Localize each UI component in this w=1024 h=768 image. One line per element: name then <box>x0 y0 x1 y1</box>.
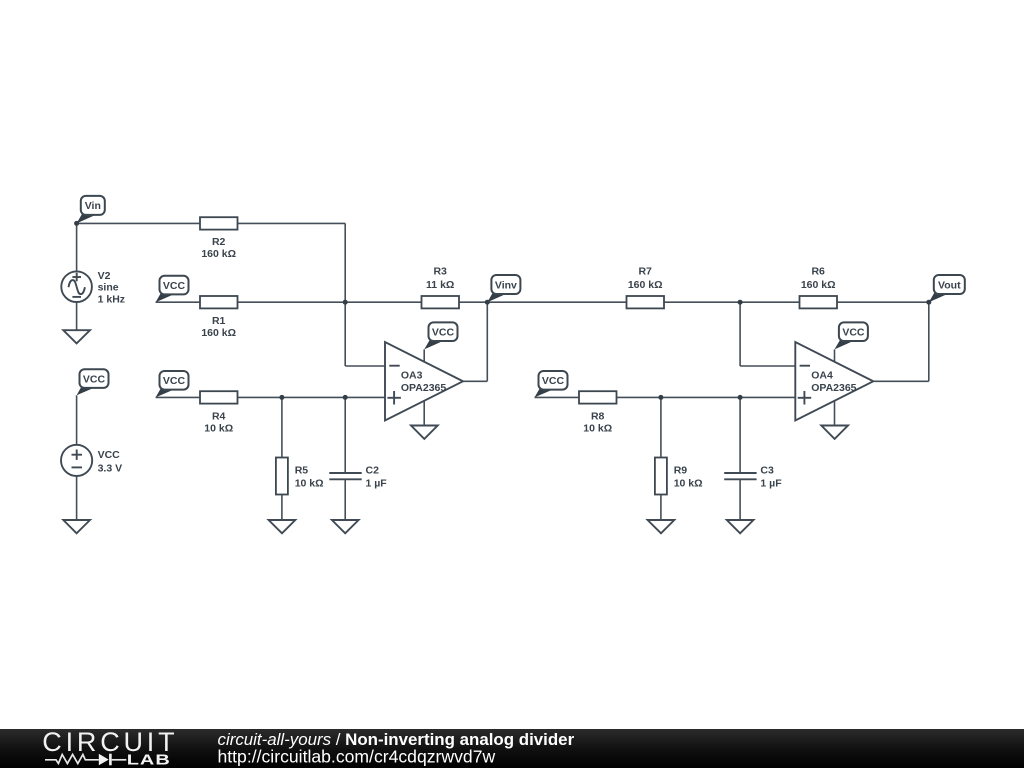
svg-text:10 kΩ: 10 kΩ <box>295 477 324 489</box>
wire R4 right to OA3 non-inverting input <box>238 396 386 398</box>
junction R7-R6 node <box>738 300 743 305</box>
ground under V2 <box>63 330 90 343</box>
svg-text:V2: V2 <box>98 270 111 282</box>
resistor R5 <box>276 458 288 495</box>
resistor R8 <box>579 391 617 403</box>
svg-text:Vinv: Vinv <box>495 279 517 291</box>
wire VCC flag to R8 left <box>535 396 580 398</box>
capacitor C2 <box>329 473 361 479</box>
voltage source VCC 3.3V <box>61 445 92 476</box>
label R7 value <box>628 266 663 291</box>
svg-text:R2: R2 <box>212 236 226 248</box>
power flag VCC at source <box>77 369 109 395</box>
junction Vinv <box>485 300 490 305</box>
svg-text:Vout: Vout <box>938 279 961 291</box>
label R6 value <box>801 266 836 291</box>
junction C3 tap <box>738 395 743 400</box>
wire C3 bottom to ground <box>739 480 741 520</box>
logo resistor zigzag <box>45 755 99 764</box>
svg-text:http://circuitlab.com/cr4cdqzr: http://circuitlab.com/cr4cdqzrwvd7w <box>218 746 496 766</box>
ground under C3 <box>727 520 754 533</box>
wire R3 right to Vinv node <box>459 301 487 303</box>
svg-text:R4: R4 <box>212 410 226 422</box>
svg-text:160 kΩ: 160 kΩ <box>201 327 236 339</box>
wire OA3 VCC pin <box>423 349 425 362</box>
voltage source V2 <box>61 271 92 302</box>
power flag VCC at OA3 <box>424 322 457 349</box>
label R5 value <box>295 465 324 490</box>
resistor R4 <box>200 391 238 403</box>
resistor R1 <box>200 296 238 308</box>
label R8 value <box>583 410 612 434</box>
power flag VCC at R4 <box>156 371 189 397</box>
wire C2 bottom to ground <box>344 480 346 520</box>
power flag VCC at R8 <box>535 371 568 397</box>
svg-text:sine: sine <box>98 282 119 294</box>
svg-text:R9: R9 <box>674 465 688 477</box>
wire VCC source bottom to ground <box>76 476 78 520</box>
wire R5 bottom to ground <box>281 495 283 521</box>
op-amp OA4 <box>795 342 873 421</box>
ground under VCC source <box>63 520 90 533</box>
resistor R3 <box>422 296 460 308</box>
label C3 value <box>760 465 782 490</box>
wire VCC source top <box>76 395 78 445</box>
svg-text:1 µF: 1 µF <box>760 477 782 489</box>
op-amp OA3 <box>385 342 463 421</box>
wire Vin node to R2 left <box>77 222 200 224</box>
svg-text:OPA2365: OPA2365 <box>811 382 856 394</box>
wire R8 right to OA4 non-inverting input <box>617 396 796 398</box>
svg-text:VCC: VCC <box>542 375 565 387</box>
resistor R9 <box>655 458 667 495</box>
junction R9 tap <box>658 395 663 400</box>
svg-text:160 kΩ: 160 kΩ <box>628 279 663 291</box>
wire Vinv node to R7 left <box>487 301 626 303</box>
wire stub to OA3 inverting input <box>345 365 385 367</box>
wire OA3 output to feedback column <box>463 380 487 382</box>
junction R5 tap <box>279 395 284 400</box>
capacitor C3 <box>724 473 756 479</box>
label R2 value <box>201 236 236 260</box>
junction C2 tap <box>343 395 348 400</box>
svg-text:R5: R5 <box>295 465 309 477</box>
label R9 value <box>674 465 703 490</box>
label VCC value <box>98 449 123 474</box>
wire OA4 output to Vout column <box>874 380 929 382</box>
wire R2 right to feedback corner <box>238 222 346 224</box>
junction Vout <box>926 300 931 305</box>
wire C2 top <box>344 397 346 472</box>
svg-text:160 kΩ: 160 kΩ <box>801 279 836 291</box>
svg-text:1 kHz: 1 kHz <box>98 293 125 305</box>
svg-text:R3: R3 <box>433 266 447 278</box>
logo diode symbol <box>99 754 127 766</box>
ground under R5 <box>269 520 296 533</box>
wire OA4 output vertical up to Vout <box>928 302 930 381</box>
svg-text:10 kΩ: 10 kΩ <box>204 423 233 435</box>
svg-text:C3: C3 <box>760 465 774 477</box>
wire C3 top <box>739 397 741 472</box>
resistor R2 <box>200 217 238 229</box>
svg-text:10 kΩ: 10 kΩ <box>583 423 612 435</box>
svg-text:VCC: VCC <box>98 449 121 461</box>
svg-text:VCC: VCC <box>163 280 186 292</box>
resistor R6 <box>800 296 838 308</box>
junction Vin <box>74 221 79 226</box>
wire R9 bottom to ground <box>660 495 662 521</box>
svg-text:1 µF: 1 µF <box>366 477 388 489</box>
svg-text:OA4: OA4 <box>811 369 833 381</box>
wire OA4 VCC pin <box>834 349 836 362</box>
label R3 value <box>426 266 454 291</box>
svg-text:R8: R8 <box>591 410 605 422</box>
node Vout flag <box>929 275 965 302</box>
wire R6 right to Vout node <box>837 301 929 303</box>
node Vinv flag <box>487 275 520 302</box>
label C2 value <box>366 465 388 490</box>
svg-text:VCC: VCC <box>83 373 106 385</box>
BOTTOM BAR <box>0 727 1024 768</box>
svg-text:VCC: VCC <box>432 326 455 338</box>
wire Vin node down to V2 plus <box>76 223 78 271</box>
wire R1 right to R3 left <box>238 301 422 303</box>
wire VCC flag to R1 left <box>156 301 200 303</box>
svg-text:Vin: Vin <box>85 200 101 212</box>
svg-text:VCC: VCC <box>163 375 186 387</box>
power flag VCC at OA4 <box>835 322 868 349</box>
svg-text:C2: C2 <box>366 465 380 477</box>
power flag VCC at R1 <box>156 276 189 302</box>
svg-text:10 kΩ: 10 kΩ <box>674 477 703 489</box>
label R1 value <box>201 315 236 339</box>
svg-text:160 kΩ: 160 kΩ <box>201 248 236 260</box>
wire vertical feedback column x=345 <box>344 223 346 366</box>
wire OA3 feedback vertical up to Vinv <box>486 302 488 381</box>
svg-text:R6: R6 <box>811 266 825 278</box>
label V2 value <box>98 270 125 305</box>
wire vertical from mid junction to OA4 minus row <box>739 302 741 366</box>
ground under OA3 <box>411 426 438 439</box>
svg-text:OA3: OA3 <box>401 369 423 381</box>
node Vin flag <box>77 196 105 224</box>
resistor R7 <box>627 296 665 308</box>
svg-text:VCC: VCC <box>842 326 865 338</box>
svg-text:R7: R7 <box>638 266 652 278</box>
wire R7 right to R6 left <box>664 301 800 303</box>
ground under C2 <box>332 520 359 533</box>
wire VCC flag to R4 left <box>156 396 200 398</box>
svg-text:R1: R1 <box>212 315 226 327</box>
wire R5 top <box>281 397 283 457</box>
svg-text:3.3 V: 3.3 V <box>98 462 123 474</box>
label OA4 name <box>811 369 856 394</box>
svg-text:LAB: LAB <box>127 751 171 768</box>
svg-text:OPA2365: OPA2365 <box>401 382 446 394</box>
svg-text:11 kΩ: 11 kΩ <box>426 279 454 291</box>
ground under R9 <box>648 520 675 533</box>
junction R2-R1 node <box>343 300 348 305</box>
wire R9 top <box>660 397 662 457</box>
wire V2 minus down to ground <box>76 302 78 330</box>
ground under OA4 <box>821 426 848 439</box>
wire OA3 ground pin <box>423 401 425 426</box>
label R4 value <box>204 410 233 434</box>
wire OA4 ground pin <box>834 401 836 426</box>
wire stub to OA4 inverting input <box>740 365 795 367</box>
label OA3 name <box>401 369 446 394</box>
